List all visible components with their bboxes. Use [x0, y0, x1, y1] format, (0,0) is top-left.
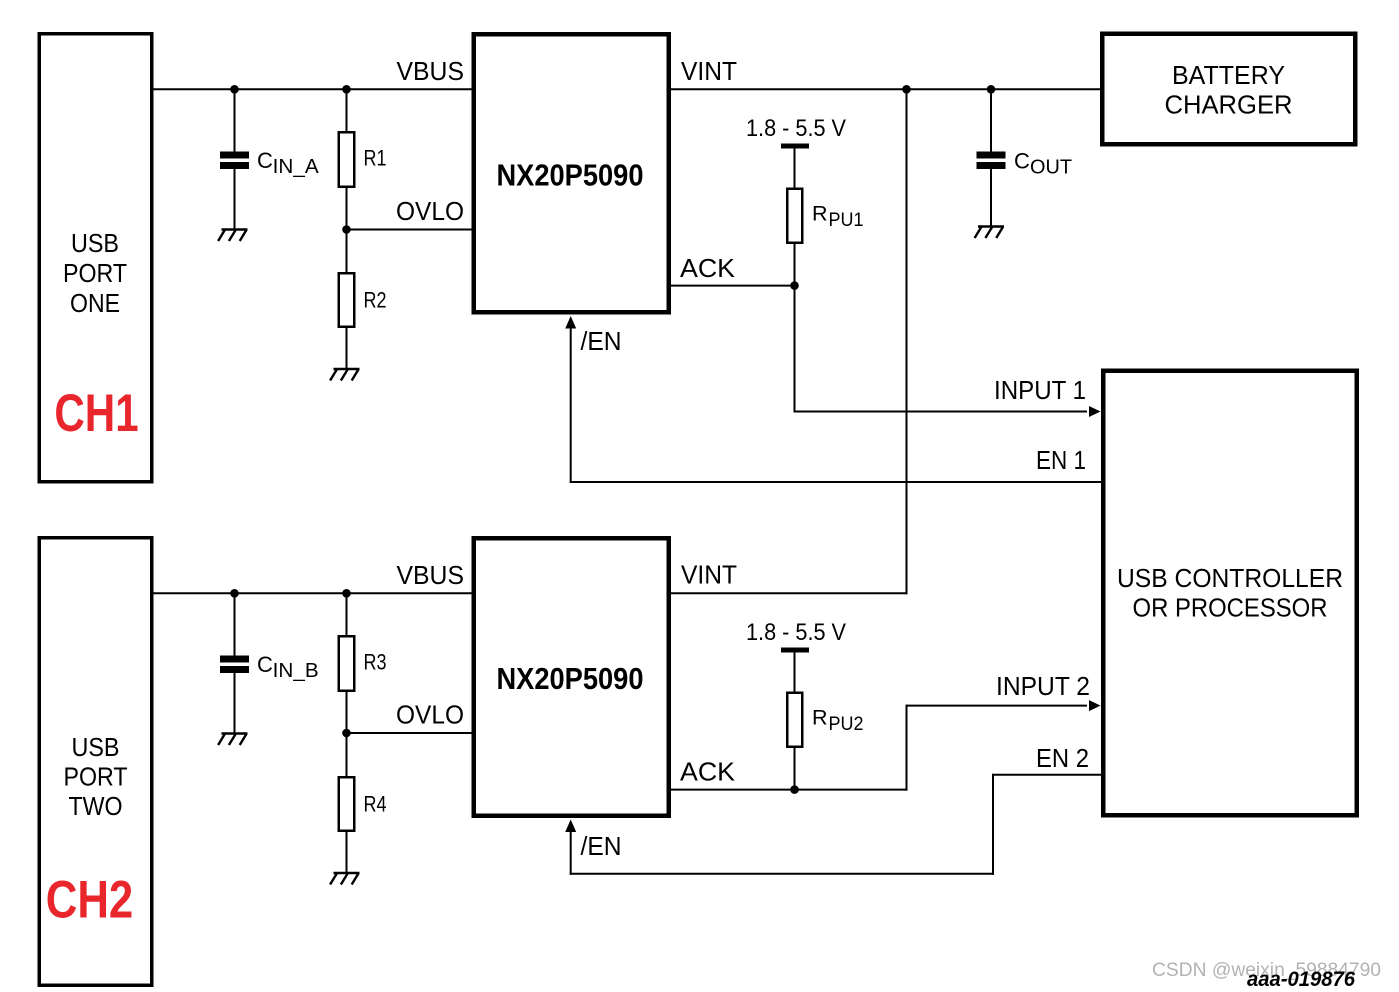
svg-text:INPUT 1: INPUT 1 — [994, 377, 1086, 405]
ground (C_OUT) — [975, 227, 1004, 239]
supply 1.8 - 5.5 V (ch1) — [746, 115, 846, 149]
svg-text:CHARGER: CHARGER — [1165, 91, 1293, 119]
svg-text:EN 2: EN 2 — [1036, 745, 1089, 773]
svg-text:USB: USB — [72, 734, 120, 762]
resistor R3 — [339, 593, 355, 734]
svg-text:R4: R4 — [364, 792, 387, 817]
IC U1 NX20P5090 (channel 1) — [474, 34, 669, 312]
label R_PU2 — [812, 706, 864, 736]
ground (C_IN_A) — [218, 230, 247, 242]
block USB PORT TWO (CH2) — [39, 538, 152, 986]
node junction VBUS/R1 — [342, 85, 351, 94]
wire ACK ch2 — [668, 789, 908, 791]
node junction VBUS2/R3 — [342, 589, 351, 598]
block USB CONTROLLER OR PROCESSOR — [1103, 371, 1357, 816]
wire INPUT 2 — [906, 700, 1101, 791]
block BATTERY CHARGER — [1102, 34, 1355, 145]
svg-text:aaa-019876: aaa-019876 — [1247, 968, 1355, 991]
svg-text:VBUS: VBUS — [397, 58, 465, 86]
svg-text:IN_A: IN_A — [273, 155, 319, 178]
svg-text:VBUS: VBUS — [397, 562, 465, 590]
svg-text:OR PROCESSOR: OR PROCESSOR — [1133, 595, 1328, 623]
label C_IN_A — [257, 148, 319, 178]
wire OVLO ch2 — [347, 732, 475, 734]
svg-text:EN 1: EN 1 — [1036, 447, 1086, 475]
svg-text:ONE: ONE — [70, 290, 120, 318]
node junction OVLO2/R3/R4 — [342, 729, 351, 738]
wire VINT vertical tie to ch2 — [906, 89, 908, 594]
svg-text:ACK: ACK — [680, 759, 735, 787]
svg-text:1.8 - 5.5 V: 1.8 - 5.5 V — [746, 619, 846, 646]
svg-text:IN_B: IN_B — [273, 659, 319, 682]
svg-text:ACK: ACK — [680, 255, 735, 283]
node junction OVLO/R1/R2 — [342, 225, 351, 234]
node junction ACK/R_PU1 — [790, 281, 799, 290]
svg-text:R: R — [812, 202, 828, 226]
capacitor C_OUT — [977, 89, 1006, 227]
ground (C_IN_B) — [218, 734, 247, 746]
IC U2 NX20P5090 (channel 2) — [474, 538, 669, 816]
wire OVLO ch1 — [347, 229, 475, 231]
wire EN 2 — [565, 774, 1102, 875]
svg-text:NX20P5090: NX20P5090 — [497, 661, 644, 696]
svg-text:NX20P5090: NX20P5090 — [497, 158, 644, 193]
resistor R_PU2 — [787, 652, 802, 791]
wire VINT ch2 — [668, 592, 908, 594]
label R_PU1 — [812, 202, 864, 232]
resistor R_PU1 — [787, 148, 802, 287]
block USB PORT ONE (CH1) — [39, 34, 152, 482]
resistor R4 — [339, 733, 355, 874]
svg-text:R2: R2 — [364, 288, 387, 313]
wire VBUS ch2 — [152, 592, 474, 594]
supply 1.8 - 5.5 V (ch2) — [746, 619, 846, 653]
svg-text:PU2: PU2 — [829, 713, 864, 735]
svg-text:C: C — [257, 652, 273, 677]
svg-text:/EN: /EN — [581, 833, 622, 861]
svg-text:VINT: VINT — [681, 58, 737, 86]
svg-text:USB CONTROLLER: USB CONTROLLER — [1117, 565, 1343, 593]
svg-text:CH2: CH2 — [46, 871, 133, 930]
svg-text:INPUT 2: INPUT 2 — [996, 673, 1090, 701]
node junction VBUS2/C_IN_B — [230, 589, 239, 598]
svg-text:TWO: TWO — [69, 793, 123, 821]
capacitor C_IN_A — [220, 89, 249, 230]
node junction VBUS/C_IN_A — [230, 85, 239, 94]
svg-text:PU1: PU1 — [829, 209, 864, 231]
label C_IN_B — [257, 652, 319, 682]
label C_OUT — [1014, 149, 1072, 179]
node junction ACK2/R_PU2 — [790, 785, 799, 794]
wire VINT ch1 — [668, 88, 1102, 90]
capacitor C_IN_B — [220, 593, 249, 734]
svg-text:PORT: PORT — [63, 260, 127, 288]
svg-text:/EN: /EN — [581, 328, 622, 356]
svg-text:1.8 - 5.5 V: 1.8 - 5.5 V — [746, 115, 846, 142]
svg-text:R1: R1 — [364, 146, 387, 171]
resistor R2 — [339, 230, 355, 371]
ground (R4) — [330, 873, 359, 885]
ground (R2) — [330, 369, 359, 381]
svg-text:BATTERY: BATTERY — [1172, 62, 1285, 90]
node junction VINT/drop — [902, 85, 911, 94]
svg-text:R3: R3 — [364, 650, 387, 675]
svg-text:VINT: VINT — [681, 562, 737, 590]
svg-text:OVLO: OVLO — [396, 198, 464, 226]
svg-text:R: R — [812, 706, 828, 730]
svg-text:OVLO: OVLO — [396, 702, 464, 730]
svg-text:C: C — [1014, 149, 1030, 174]
resistor R1 — [339, 89, 355, 230]
svg-text:OUT: OUT — [1030, 156, 1072, 179]
svg-text:USB: USB — [71, 230, 119, 258]
node junction VINT/C_OUT — [987, 85, 996, 94]
wire VBUS ch1 — [152, 88, 474, 90]
svg-text:PORT: PORT — [64, 764, 128, 792]
svg-text:CH1: CH1 — [54, 385, 138, 444]
svg-text:C: C — [257, 148, 273, 173]
wire EN 1 — [565, 316, 1102, 483]
label CH1 — [54, 385, 138, 444]
wire ACK ch1 — [668, 285, 796, 287]
label CH2 — [46, 871, 133, 930]
wire INPUT 1 — [794, 286, 1101, 417]
